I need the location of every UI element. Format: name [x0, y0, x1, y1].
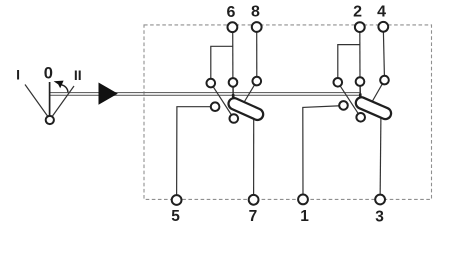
- wire: contact B to rotor 1: [232, 82, 234, 101]
- svg-text:5: 5: [171, 208, 180, 225]
- contact D: [211, 102, 220, 111]
- wire: terminal 3 riser to rotor 2: [379, 118, 382, 200]
- wire: branch terminal 2 to contact A': [338, 45, 360, 83]
- wire: contact C' to rotor 2: [373, 80, 385, 101]
- contact B': [356, 77, 365, 86]
- contact A': [334, 78, 343, 87]
- rotor 2 (movable bridge contact, section 2): [362, 103, 386, 113]
- wire: terminal 5 riser to contact D: [177, 107, 216, 200]
- wire: contact A' to contact E': [338, 82, 361, 117]
- lever position 0 line: [49, 82, 51, 120]
- dashed enclosure (switch body outline): [144, 25, 432, 200]
- lever pivot: [46, 116, 54, 124]
- terminal 5: [172, 195, 182, 205]
- terminal 3: [375, 195, 385, 205]
- wire: terminal 1 riser to contact D': [303, 106, 344, 200]
- lever position II line: [50, 86, 74, 120]
- svg-text:8: 8: [251, 4, 260, 21]
- contact A: [207, 79, 216, 88]
- svg-text:I: I: [16, 67, 20, 83]
- svg-text:II: II: [74, 67, 82, 83]
- svg-text:6: 6: [227, 4, 236, 21]
- svg-text:7: 7: [249, 208, 258, 225]
- svg-text:2: 2: [353, 4, 362, 21]
- wire: terminal 2 stem: [359, 27, 361, 82]
- wire: terminal 8 stem: [256, 27, 258, 81]
- shaft (mechanical link, double line): [50, 93, 361, 96]
- wire: terminal 4 stem: [383, 27, 384, 80]
- junction: contact B stem at rotor 1 cap: [232, 94, 235, 100]
- svg-text:4: 4: [377, 4, 386, 21]
- contact B: [229, 78, 238, 87]
- wire: branch terminal 6 to contact A: [211, 46, 233, 83]
- rotation arrowhead: [54, 81, 64, 89]
- contact C': [380, 76, 389, 85]
- rotor 1 (movable bridge contact, section 1): [234, 104, 257, 115]
- terminal 8: [252, 22, 262, 32]
- wire: terminal 6 stem: [232, 27, 234, 82]
- junction: contact B' stem at rotor 2 cap: [359, 94, 362, 100]
- wire: contact B' to rotor 2: [359, 82, 361, 100]
- svg-text:3: 3: [375, 208, 384, 225]
- terminal 1: [298, 195, 308, 205]
- svg-text:0: 0: [44, 64, 53, 82]
- contact D': [339, 101, 348, 110]
- terminal 4: [378, 22, 388, 32]
- terminal 2: [355, 22, 365, 32]
- terminal 6: [228, 22, 238, 32]
- contact E: [230, 114, 239, 123]
- terminal 7: [249, 195, 259, 205]
- wire: terminal 7 riser to rotor 1: [253, 117, 255, 200]
- contact C: [252, 77, 261, 86]
- lever position I line: [25, 85, 50, 120]
- actuator arrow (filled triangle on shaft): [99, 83, 118, 105]
- wire: contact C to rotor 1: [245, 81, 257, 101]
- contact E': [356, 113, 365, 122]
- wire: contact A to contact E: [211, 83, 234, 118]
- svg-text:1: 1: [300, 208, 309, 225]
- rotation direction arrow (arc): [61, 85, 68, 93]
